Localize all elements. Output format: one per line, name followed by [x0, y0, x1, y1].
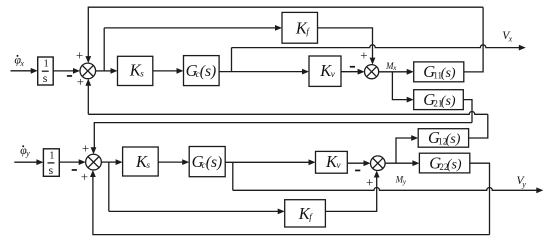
label Vx — [502, 30, 512, 43]
block G11(s) — [414, 62, 464, 82]
wire Kf output to S2 top — [318, 28, 373, 58]
block Ks (x-loop) — [118, 56, 153, 85]
svg-text:(s): (s) — [447, 157, 462, 172]
block Kv (x-loop) — [309, 56, 341, 86]
svg-text:1: 1 — [49, 150, 54, 161]
svg-text:+: + — [366, 174, 373, 189]
svg-text:(s): (s) — [446, 132, 461, 147]
bottom feedback wire to S3 bottom — [93, 176, 490, 234]
wire tap S3 output down to Kf input line — [108, 162, 110, 211]
wire tap Mx down to G21 — [392, 72, 407, 100]
summing junction S3 — [86, 154, 102, 170]
wire Kf output to S4 bottom — [325, 177, 376, 211]
wire G22 output right and down to bottom feedback — [470, 163, 490, 234]
block G12(s) — [418, 129, 468, 148]
wire G11 output right and up to top feedback — [464, 7, 483, 72]
svg-text:+: + — [76, 47, 83, 62]
Vy output line with hops — [233, 188, 537, 191]
wire Kf input line (x-loop) — [104, 27, 275, 29]
svg-text:s: s — [147, 160, 151, 170]
label My — [395, 174, 407, 186]
wire tap My up to G12 — [396, 138, 412, 163]
svg-text:x: x — [19, 59, 24, 68]
svg-text:f: f — [309, 212, 313, 222]
wire S1 to Ks — [96, 70, 111, 72]
wire tap S1 output up to Kf input line — [103, 28, 105, 71]
cross-feed wire G12 to S1 bottom (hop over G21 drop) — [88, 112, 488, 115]
summing junction S4 — [371, 156, 386, 171]
wire tap Gc output up to Vx line — [231, 48, 233, 72]
sign - (S3 left input) — [72, 169, 77, 171]
input phi_y label — [20, 143, 30, 158]
wire 1/s to summer S3 — [59, 161, 79, 163]
wire tap Gc output down to Vy line — [232, 162, 234, 190]
block Kv (y-loop) — [316, 151, 348, 173]
svg-text:y: y — [25, 149, 30, 158]
wire input arrow phi_y — [14, 161, 37, 163]
block G21(s) — [414, 90, 464, 110]
svg-text:x: x — [392, 64, 397, 72]
svg-text:1: 1 — [44, 59, 49, 70]
label Vy — [517, 175, 527, 189]
wire Gc to Kv — [219, 71, 302, 73]
wire G21 output down to cross-feed line2 — [463, 100, 472, 123]
node My : wire S4 to G22 — [385, 162, 413, 164]
block G22(s) — [419, 153, 469, 173]
summing junction S1 — [80, 63, 96, 79]
Vx output line with hops — [232, 45, 520, 48]
svg-text:s: s — [43, 71, 48, 85]
svg-text:+: + — [360, 48, 367, 63]
svg-text:y: y — [521, 180, 526, 189]
svg-text:(s): (s) — [441, 94, 456, 109]
wire Kv to summer S4 — [347, 162, 364, 164]
wire Ks to Gc (y-loop) — [158, 161, 183, 163]
svg-text:+: + — [77, 74, 84, 89]
wire Ks to Gc — [153, 70, 177, 72]
svg-text:+: + — [82, 141, 89, 156]
svg-text:x: x — [508, 34, 513, 43]
block Kf (x-loop) — [282, 12, 318, 43]
svg-text:(s): (s) — [441, 66, 456, 81]
wire Kv to summer S2 — [341, 71, 358, 73]
wire S3 to Ks — [101, 161, 116, 163]
top feedback wire to S1 top — [88, 7, 483, 57]
block Gc(s) (x-loop) — [184, 56, 220, 86]
label Mx — [385, 61, 397, 72]
wire input arrow phi_x — [11, 70, 32, 72]
wire Gc to Kv (y-loop) — [225, 161, 309, 163]
svg-text:(s): (s) — [206, 154, 222, 171]
input phi_x label — [14, 53, 24, 68]
svg-text:y: y — [402, 178, 407, 186]
wire G12 output up to cross-feed line1 — [469, 114, 488, 138]
summing junction S2 — [365, 65, 379, 79]
cross-feed wire G21 to S3 top — [94, 123, 472, 148]
block Kf (y-loop) — [285, 200, 326, 227]
svg-text:+: + — [81, 169, 88, 184]
svg-text:v: v — [337, 160, 341, 170]
wire 1/s to summer S1 — [53, 70, 73, 72]
integrator block 1/s (y-loop) — [43, 149, 59, 177]
wire Kf input line (y-loop) — [109, 210, 278, 212]
block Gc(s) (y-loop) — [189, 147, 225, 177]
node Mx : wire S2 to G11 — [379, 71, 408, 73]
sign - (S4 left input) — [355, 170, 360, 172]
integrator block 1/s (x-loop) — [38, 57, 54, 85]
svg-text:v: v — [331, 69, 335, 79]
block Ks (y-loop) — [123, 147, 159, 176]
sign - (S1 left input) — [67, 75, 72, 77]
svg-text:s: s — [140, 69, 144, 79]
svg-text:(s): (s) — [200, 63, 216, 80]
sign - (S2 left input) — [350, 66, 355, 68]
svg-text:s: s — [49, 163, 54, 177]
svg-text:f: f — [306, 27, 310, 37]
